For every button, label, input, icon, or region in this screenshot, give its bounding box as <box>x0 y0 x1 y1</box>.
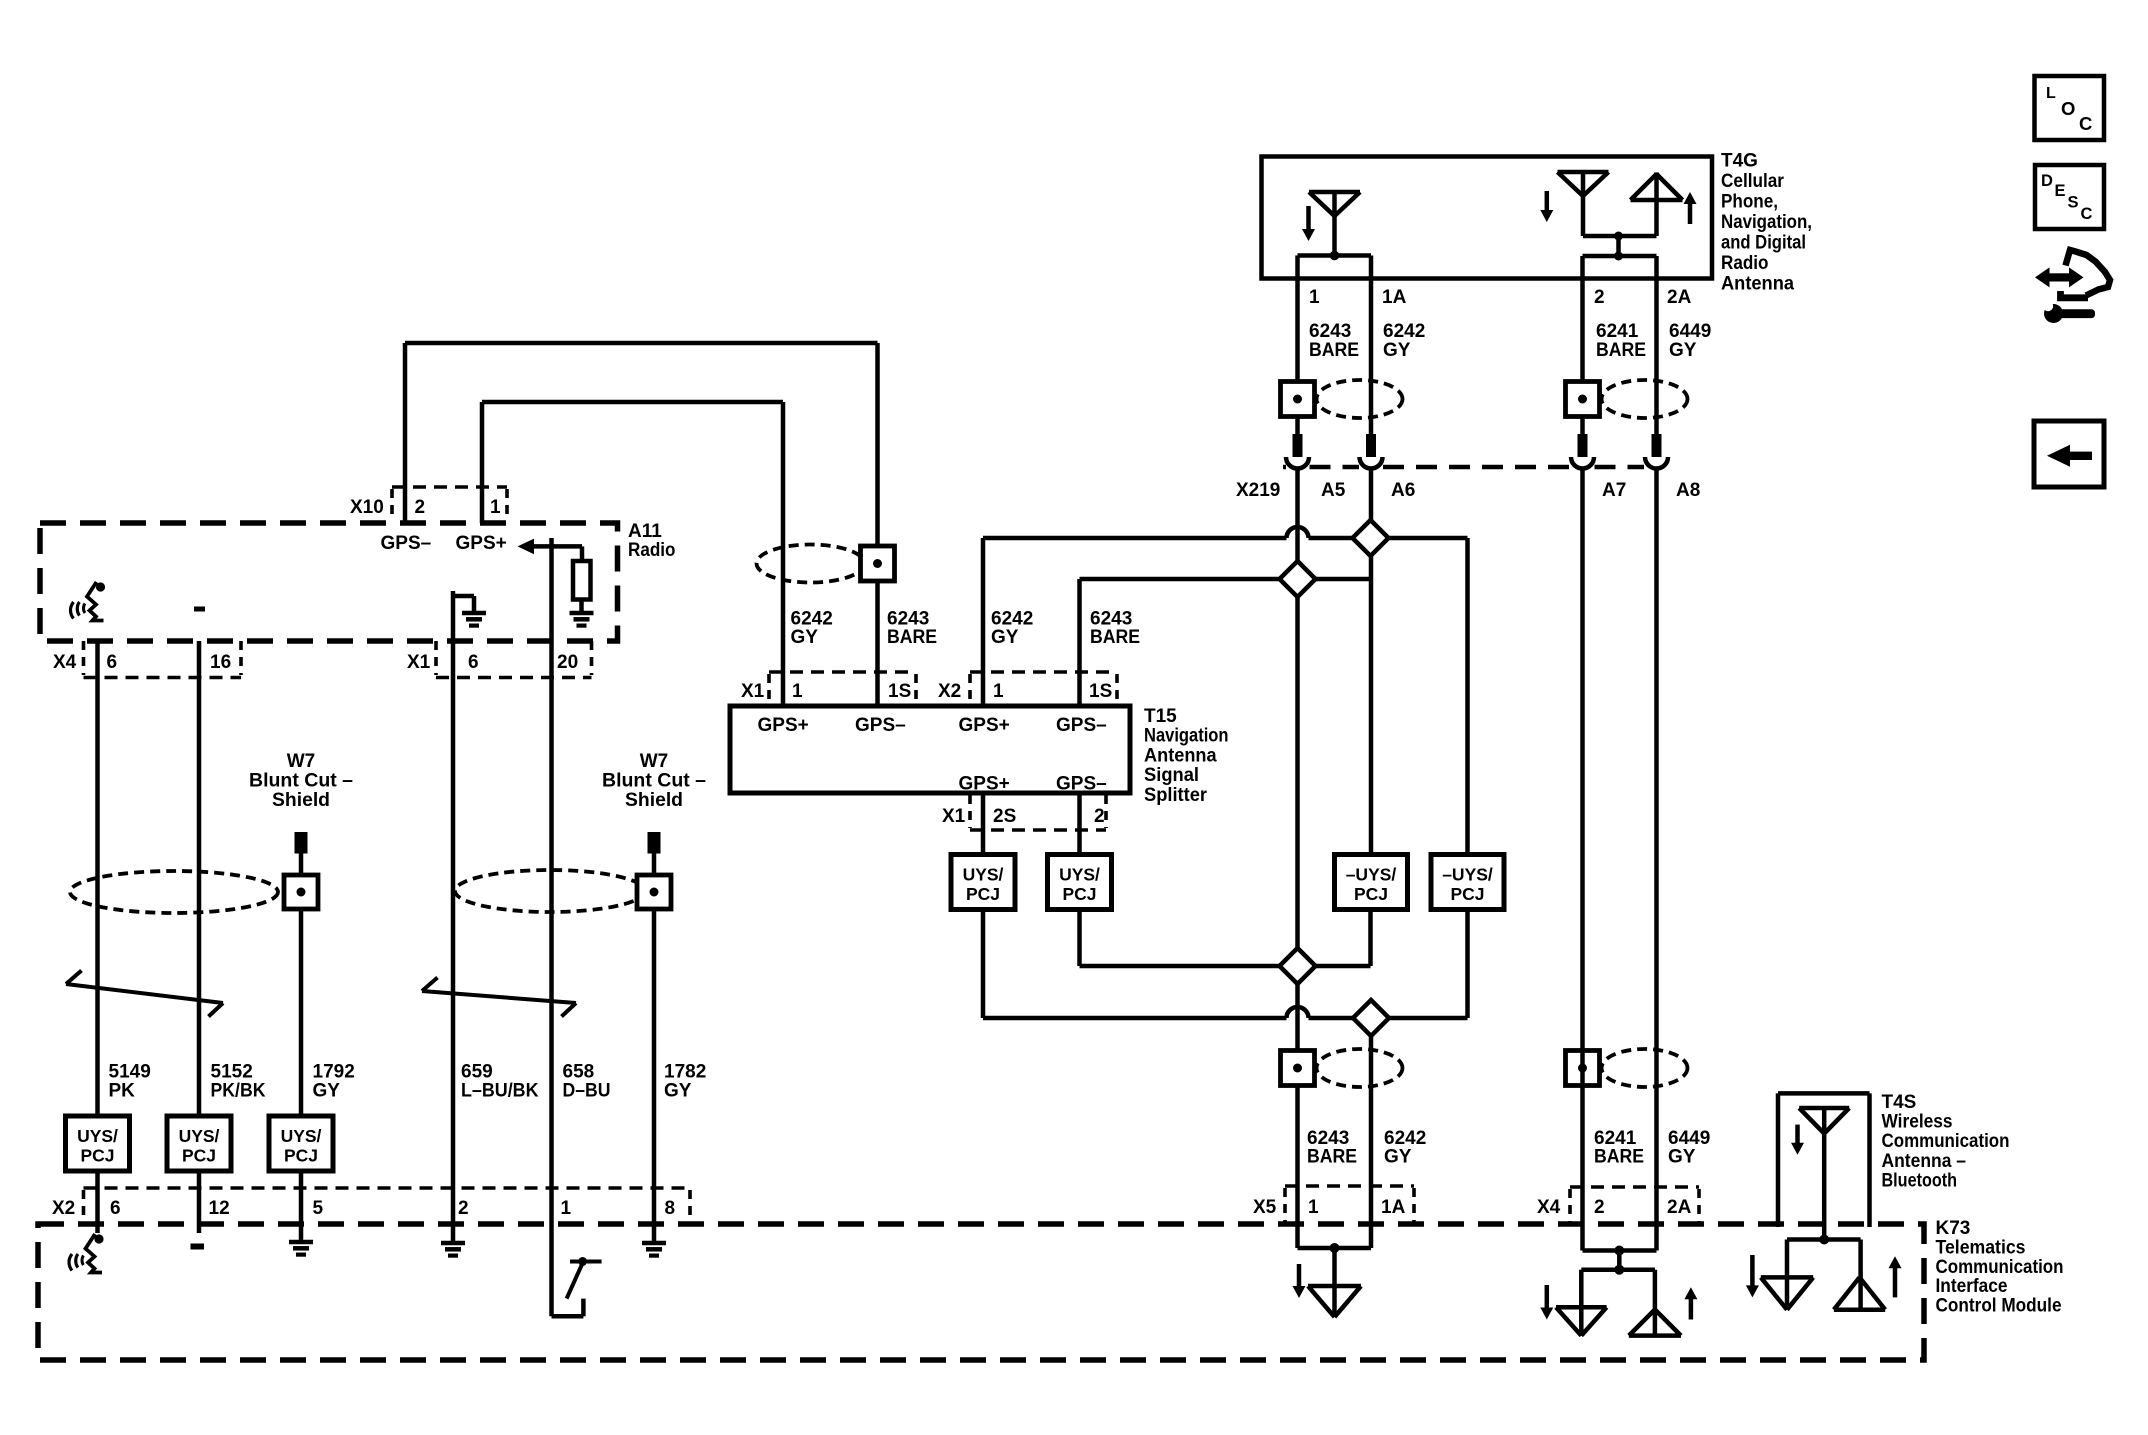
svg-text:C: C <box>2081 205 2093 223</box>
svg-text:PCJ: PCJ <box>1354 884 1388 904</box>
svg-text:2: 2 <box>458 1198 469 1219</box>
ground in K73 at X2-5 <box>289 1224 313 1255</box>
svg-text:GY: GY <box>1669 340 1697 361</box>
svg-text:1A: 1A <box>1382 287 1407 308</box>
svg-text:BARE: BARE <box>1090 627 1140 648</box>
svg-text:UYS/: UYS/ <box>1059 865 1100 885</box>
svg-text:UYS/: UYS/ <box>179 1126 220 1146</box>
antenna 2/3 junction <box>1583 232 1657 261</box>
K73 GPS antenna input join <box>1298 1243 1372 1317</box>
antenna 1 feed bar <box>1298 251 1372 261</box>
svg-text:Phone,: Phone, <box>1721 192 1778 213</box>
svg-text:1S: 1S <box>1089 681 1112 702</box>
wire A7 down to X4 pin 2 <box>1580 468 1585 1251</box>
X219 labels <box>1236 480 1700 501</box>
svg-text:1: 1 <box>1308 1197 1319 1218</box>
wire run X1-2 to -UYS left <box>1080 910 1371 967</box>
wire junction leg A6 to splitter X2 <box>1369 538 1374 855</box>
svg-text:GPS+: GPS+ <box>959 774 1010 795</box>
svg-text:Radio: Radio <box>1721 253 1769 274</box>
svg-text:D: D <box>2041 172 2053 190</box>
svg-text:5152: 5152 <box>211 1062 253 1083</box>
svg-text:X219: X219 <box>1236 480 1280 501</box>
svg-text:2A: 2A <box>1667 287 1692 308</box>
svg-text:T15: T15 <box>1144 706 1177 727</box>
svg-text:PCJ: PCJ <box>1450 884 1484 904</box>
RF source symbol at K73 bluetooth TX <box>1834 1277 1885 1309</box>
svg-text:E: E <box>2055 182 2066 200</box>
switch in K73 at X2-1 <box>567 1257 602 1299</box>
arrow down at antenna 2 <box>1540 191 1553 222</box>
GPS- GPS+ pin names <box>381 533 507 554</box>
terminal code UYS/PCJ at X1-2S <box>951 855 1015 910</box>
T4G box <box>1262 157 1713 279</box>
K73 X5 pin labels <box>1253 1197 1406 1218</box>
diamond junction at A5 and GPS- run <box>1280 561 1316 597</box>
svg-text:A5: A5 <box>1321 480 1346 501</box>
GPS+ feed arrow in A11 <box>518 539 582 561</box>
svg-text:GPS+: GPS+ <box>758 715 809 736</box>
wire label 1792 GY <box>313 1062 355 1102</box>
svg-text:PCJ: PCJ <box>284 1146 318 1166</box>
svg-text:Antenna –: Antenna – <box>1882 1151 1967 1172</box>
wire label 6243 BARE <box>1309 321 1359 361</box>
svg-text:Shield: Shield <box>625 790 683 811</box>
svg-text:Bluetooth: Bluetooth <box>1882 1170 1958 1191</box>
X10 pin box <box>392 487 507 521</box>
svg-text:BARE: BARE <box>1309 340 1359 361</box>
svg-text:BARE: BARE <box>1596 340 1646 361</box>
wire label 6242 GY at X5 <box>1384 1128 1426 1168</box>
arrow down in T4S <box>1791 1125 1804 1155</box>
svg-text:6243: 6243 <box>1309 321 1351 342</box>
wire label 6449 GY <box>1669 321 1711 361</box>
arrow down at K73 bluetooth RX <box>1746 1255 1759 1297</box>
wire label 6243 BARE at splitter X2-1S <box>1090 609 1140 649</box>
svg-text:X2: X2 <box>52 1198 75 1219</box>
svg-text:GY: GY <box>1383 340 1411 361</box>
ground in K73 at X2-2 <box>441 1233 465 1256</box>
svg-text:12: 12 <box>209 1198 230 1219</box>
W7 blunt cut shield label right <box>602 751 706 811</box>
T4S antenna element <box>1799 1108 1849 1240</box>
wire 659 L-BU/BK radio X1-6 to K73 X2-2 <box>451 641 456 1233</box>
svg-text:Navigation,: Navigation, <box>1721 212 1812 233</box>
K73 label <box>1936 1218 2064 1317</box>
svg-text:GY: GY <box>791 627 819 648</box>
T15 top pin labels <box>741 681 1112 702</box>
wire label 659 L-BU/BK <box>461 1062 539 1102</box>
LOC button <box>2035 76 2105 140</box>
svg-text:8: 8 <box>665 1198 676 1219</box>
svg-text:A7: A7 <box>1602 480 1626 501</box>
antenna element 3 (cellular TX) <box>1631 172 1683 236</box>
A11 X4 pin labels <box>53 652 231 673</box>
svg-text:Wireless: Wireless <box>1882 1112 1953 1133</box>
svg-text:PCJ: PCJ <box>182 1146 216 1166</box>
connector X219 terminal A7 <box>1571 434 1594 469</box>
terminal code UYS/PCJ at X2-5 <box>269 1116 333 1171</box>
svg-text:1782: 1782 <box>664 1062 706 1083</box>
inline splice on wire 6243 <box>1281 380 1403 418</box>
svg-text:Shield: Shield <box>272 790 330 811</box>
inline splice on W7 wire right <box>637 875 671 909</box>
svg-text:2S: 2S <box>993 806 1016 827</box>
wire A8 down to X4 pin 2A <box>1654 468 1659 1251</box>
svg-text:GPS–: GPS– <box>1056 715 1107 736</box>
wire 6449 antenna pin 2A down to X219 A8 <box>1654 256 1659 434</box>
svg-text:O: O <box>2061 98 2075 119</box>
wire 6241 antenna pin 2 down to X219 A7 <box>1580 256 1585 434</box>
T4S label <box>1882 1092 2010 1191</box>
svg-text:2: 2 <box>1094 806 1105 827</box>
svg-text:X4: X4 <box>53 652 77 673</box>
svg-text:PK/BK: PK/BK <box>211 1081 266 1102</box>
wire 6243 antenna pin 1 down to X219 A5 <box>1295 256 1300 435</box>
wire 658 D-BU radio X1-20 to K73 X2-1 switch <box>549 538 554 1316</box>
svg-text:T4G: T4G <box>1721 151 1758 172</box>
arrow up at antenna 3 <box>1684 192 1697 224</box>
wire label 6242 GY <box>1383 321 1425 361</box>
svg-text:1: 1 <box>792 681 803 702</box>
T15 internal pin names <box>758 715 1107 795</box>
svg-text:Telematics: Telematics <box>1936 1237 2026 1258</box>
svg-text:1: 1 <box>561 1198 572 1219</box>
inline splice on wire 6241 lower <box>1566 1049 1688 1087</box>
DESC button <box>2035 165 2104 229</box>
svg-text:L–BU/BK: L–BU/BK <box>461 1081 539 1102</box>
svg-text:GY: GY <box>1384 1147 1412 1168</box>
svg-text:2: 2 <box>415 497 426 518</box>
svg-text:658: 658 <box>563 1062 595 1083</box>
wire label 1782 GY <box>664 1062 706 1102</box>
inline splice on GPS- shield wire <box>757 545 895 583</box>
T15 bottom X1 pin box <box>970 795 1106 830</box>
terminal code UYS/PCJ at X2-12 <box>167 1116 231 1171</box>
svg-text:T4S: T4S <box>1882 1092 1917 1113</box>
svg-text:–UYS/: –UYS/ <box>1346 865 1397 885</box>
svg-text:L: L <box>2046 85 2056 102</box>
svg-text:BARE: BARE <box>1594 1147 1644 1168</box>
wire A6 down to junction <box>1369 468 1374 538</box>
antenna element 1 (GPS) <box>1309 192 1360 256</box>
A11 X1 pin labels <box>407 652 578 673</box>
connector X219 terminal A6 <box>1360 434 1383 469</box>
svg-text:GY: GY <box>664 1081 692 1102</box>
svg-text:W7: W7 <box>640 751 669 772</box>
svg-text:1: 1 <box>993 681 1004 702</box>
wire label 6242 GY at splitter X1-1 <box>791 609 833 649</box>
diamond junction at A5 lower run <box>1280 948 1316 984</box>
back button <box>2034 421 2104 487</box>
svg-text:Signal: Signal <box>1144 765 1199 786</box>
svg-text:PK: PK <box>109 1081 136 1102</box>
svg-text:6242: 6242 <box>1383 321 1425 342</box>
svg-text:Communication: Communication <box>1936 1257 2064 1278</box>
svg-text:6449: 6449 <box>1669 321 1711 342</box>
W7 blunt cut stub right <box>648 832 661 854</box>
T4G label <box>1721 151 1812 295</box>
svg-text:C: C <box>2079 113 2092 134</box>
harness slash arrow left pair <box>66 971 223 1017</box>
svg-text:1792: 1792 <box>313 1062 355 1083</box>
wire T15 X1-2 down <box>1077 793 1082 855</box>
svg-text:X4: X4 <box>1537 1197 1561 1218</box>
inline splice on wire 6243 lower <box>1281 1049 1403 1087</box>
svg-text:A8: A8 <box>1676 480 1700 501</box>
terminal code -UYS/PCJ left <box>1335 855 1408 910</box>
wire label 5152 PK/BK <box>211 1062 266 1102</box>
wire junction to X5 pin 1A <box>1369 1018 1374 1248</box>
wire run X1-2S to -UYS right <box>983 910 1468 1019</box>
harness slash arrow right pair <box>422 978 576 1017</box>
arrow down at antenna 1 <box>1302 206 1315 241</box>
wire 5152 PK/BK radio X4-16 to K73 X2-12 <box>197 641 202 1116</box>
svg-text:PCJ: PCJ <box>80 1146 114 1166</box>
connector X219 terminal A8 <box>1645 434 1668 469</box>
wire T15 X1-2S down <box>981 793 986 855</box>
arrow up at K73 bluetooth TX <box>1889 1256 1902 1297</box>
svg-text:6: 6 <box>107 652 118 673</box>
T15 X2 pin box <box>970 672 1117 704</box>
svg-text:Blunt Cut –: Blunt Cut – <box>249 771 353 792</box>
svg-text:PCJ: PCJ <box>966 884 1000 904</box>
svg-text:X10: X10 <box>350 497 384 518</box>
RF sink symbol at K73 GPS input <box>1308 1286 1361 1317</box>
K73 dashed box <box>38 1224 1924 1360</box>
wire label 6242 GY at splitter X2-1 <box>991 609 1033 649</box>
svg-text:1: 1 <box>1309 287 1320 308</box>
svg-text:–UYS/: –UYS/ <box>1442 865 1493 885</box>
wire A5 shield down to X5 pin 1 <box>1295 468 1300 1248</box>
wire 5149 PK radio X4-6 to K73 X2-6 <box>95 641 100 1116</box>
service icon (double arrow, hand and wrench) <box>2035 250 2110 323</box>
wire label 6449 GY at X4 <box>1668 1128 1710 1168</box>
svg-text:Antenna: Antenna <box>1144 745 1217 766</box>
svg-text:GY: GY <box>313 1081 341 1102</box>
ground under resistor <box>570 600 594 626</box>
wire run GPS+ X2-1 to -UYS splice leg <box>983 527 1468 855</box>
T4G pin labels <box>1309 287 1692 308</box>
T4S feed junction in K73 <box>1787 1235 1861 1310</box>
wire label 6241 BARE <box>1596 321 1646 361</box>
svg-text:2: 2 <box>1594 287 1605 308</box>
wire label 5149 PK <box>109 1062 151 1102</box>
svg-text:BARE: BARE <box>887 627 937 648</box>
A11 radio dashed box <box>40 523 618 641</box>
RF source symbol at K73 cellular TX <box>1629 1310 1681 1336</box>
wire 6242 antenna pin 1A down to X219 A6 <box>1369 256 1374 435</box>
svg-text:Communication: Communication <box>1882 1131 2010 1152</box>
svg-text:GY: GY <box>1668 1147 1696 1168</box>
wire label 658 D-BU <box>563 1062 611 1102</box>
svg-text:BARE: BARE <box>1307 1147 1357 1168</box>
A11 label <box>628 521 676 561</box>
svg-text:Navigation: Navigation <box>1144 726 1229 747</box>
T15 X1 pin box <box>769 672 916 704</box>
wire 1782 GY W7 to K73 X2-8 <box>652 854 657 1225</box>
svg-text:W7: W7 <box>287 751 316 772</box>
svg-text:S: S <box>2068 194 2079 212</box>
svg-text:and Digital: and Digital <box>1721 233 1806 254</box>
svg-text:GPS–: GPS– <box>855 715 906 736</box>
W7 blunt cut shield label left <box>249 751 353 811</box>
A11 X4 pin box <box>84 641 242 678</box>
svg-text:Cellular: Cellular <box>1721 171 1785 192</box>
svg-text:6: 6 <box>110 1198 121 1219</box>
microphone icon in K73 <box>69 1234 104 1273</box>
K73 X2 pin labels <box>52 1198 675 1219</box>
arrow up at K73 cellular TX <box>1684 1287 1697 1319</box>
inline splice on W7 wire left <box>284 875 318 909</box>
K73 X2 pin box <box>84 1188 691 1222</box>
svg-text:6: 6 <box>468 652 479 673</box>
minus terminal in A11 <box>194 607 205 612</box>
svg-text:UYS/: UYS/ <box>963 865 1004 885</box>
svg-text:GPS+: GPS+ <box>456 533 507 554</box>
T15 splitter box <box>730 706 1130 793</box>
minus terminal in K73 <box>191 1244 205 1250</box>
svg-text:K73: K73 <box>1936 1218 1971 1239</box>
svg-text:16: 16 <box>210 652 231 673</box>
svg-text:X1: X1 <box>741 681 765 702</box>
wire 1792 GY W7 to K73 X2-5 <box>299 854 304 1117</box>
svg-text:1A: 1A <box>1381 1197 1406 1218</box>
svg-text:GPS–: GPS– <box>1056 774 1107 795</box>
K73 X4 pin box <box>1570 1187 1699 1222</box>
svg-text:Control Module: Control Module <box>1936 1296 2062 1317</box>
wire label 6243 BARE at X5 <box>1307 1128 1357 1168</box>
svg-text:2: 2 <box>1594 1197 1605 1218</box>
terminal code UYS/PCJ at X2-6 <box>66 1116 130 1171</box>
wire splitter X1 pin 1S GPS- shield <box>405 343 878 706</box>
svg-text:1: 1 <box>490 497 501 518</box>
svg-text:5: 5 <box>313 1198 324 1219</box>
svg-text:X5: X5 <box>1253 1197 1277 1218</box>
K73 X4 pin labels <box>1537 1197 1692 1218</box>
ground in K73 at X2-8 <box>642 1224 666 1256</box>
connector X219 terminal A5 <box>1286 434 1309 469</box>
harness ellipse right <box>455 870 645 912</box>
X10 labels <box>350 497 501 518</box>
wire label 6243 BARE at splitter X1-1S <box>887 609 937 649</box>
RF sink symbol at K73 cellular RX <box>1556 1307 1607 1335</box>
svg-text:GY: GY <box>991 627 1019 648</box>
svg-text:X1: X1 <box>407 652 431 673</box>
svg-text:Radio: Radio <box>628 540 676 561</box>
svg-text:UYS/: UYS/ <box>77 1126 118 1146</box>
svg-text:5149: 5149 <box>109 1062 151 1083</box>
wire run GPS- X2-1S to junction <box>1080 579 1372 706</box>
W7 blunt cut stub left <box>295 832 308 854</box>
inline splice on wire 6241 <box>1566 380 1688 418</box>
svg-text:6241: 6241 <box>1596 321 1639 342</box>
harness ellipse left <box>70 871 278 913</box>
svg-text:2A: 2A <box>1667 1197 1692 1218</box>
K73 cellular input join <box>1581 1246 1656 1336</box>
svg-text:PCJ: PCJ <box>1062 884 1096 904</box>
T15 bottom pin labels <box>942 806 1105 827</box>
resistor in A11 <box>573 561 591 600</box>
svg-text:X1: X1 <box>942 806 966 827</box>
svg-text:Interface: Interface <box>1936 1276 2008 1297</box>
svg-text:659: 659 <box>461 1062 493 1083</box>
T15 label <box>1144 706 1229 806</box>
diamond junction at A6 and GPS+ run <box>1353 520 1389 556</box>
svg-text:X2: X2 <box>938 681 961 702</box>
X219 harness dashed line <box>1283 465 1644 470</box>
svg-text:Splitter: Splitter <box>1144 785 1208 806</box>
svg-text:D–BU: D–BU <box>563 1081 611 1102</box>
diamond junction at 1A lower run <box>1353 1000 1389 1036</box>
wire splitter X1 pin 1 GPS+ <box>482 402 783 706</box>
T4S box <box>1778 1093 1870 1227</box>
svg-text:GPS–: GPS– <box>381 533 432 554</box>
ground symbol in A11 at X1-6 <box>453 591 486 641</box>
svg-text:GPS+: GPS+ <box>959 715 1010 736</box>
svg-text:1S: 1S <box>888 681 911 702</box>
terminal code UYS/PCJ at X1-2 <box>1048 855 1112 910</box>
A11 X1 pin box <box>436 641 592 678</box>
arrow down at K73 cellular RX <box>1540 1285 1553 1320</box>
wire label 6241 BARE at X4 <box>1594 1128 1644 1168</box>
svg-text:20: 20 <box>557 652 578 673</box>
K73 X5 pin box <box>1285 1186 1414 1222</box>
svg-text:UYS/: UYS/ <box>281 1126 322 1146</box>
arrow down at K73 GPS input <box>1293 1264 1306 1298</box>
svg-text:Blunt Cut –: Blunt Cut – <box>602 771 706 792</box>
RF sink symbol at K73 bluetooth RX <box>1761 1277 1813 1309</box>
svg-text:A11: A11 <box>628 521 662 542</box>
svg-text:Antenna: Antenna <box>1721 274 1794 295</box>
microphone icon in A11 <box>71 582 106 621</box>
svg-text:A6: A6 <box>1391 480 1415 501</box>
terminal code -UYS/PCJ right <box>1431 855 1504 910</box>
antenna element 2 (cellular RX) <box>1558 172 1609 236</box>
